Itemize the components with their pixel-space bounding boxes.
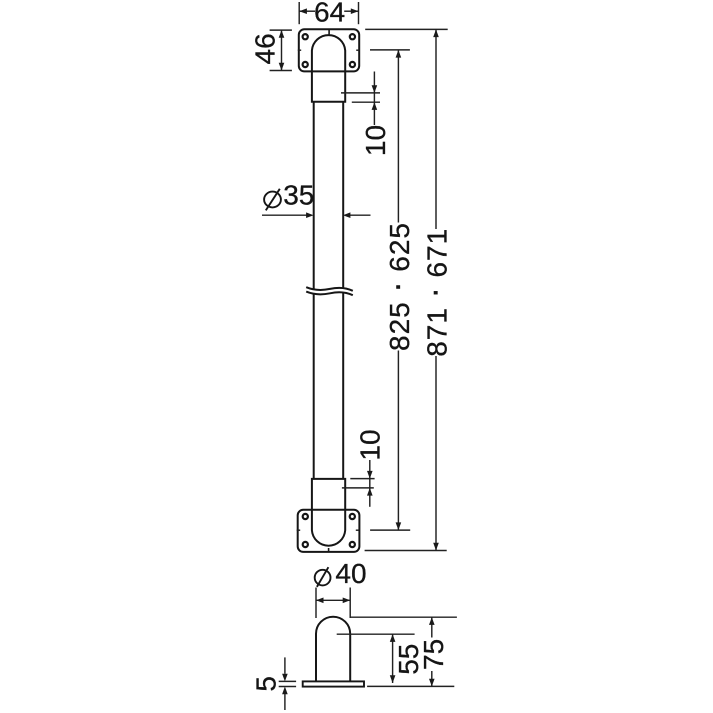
dimension 10 (bottom joint) <box>342 429 386 506</box>
dimension 46 (flange height) <box>249 30 292 70</box>
top flange plate <box>299 29 359 71</box>
svg-text:55: 55 <box>393 644 424 675</box>
top flange bolt hole BL <box>303 62 308 67</box>
top flange bolt hole TR <box>350 34 355 39</box>
svg-text:46: 46 <box>249 33 280 64</box>
side view dome cap <box>316 617 350 682</box>
dimension 825/625 (pole length) <box>370 50 415 530</box>
bottom flange mid tick left <box>297 529 301 531</box>
break wave upper <box>306 287 353 291</box>
svg-text:10: 10 <box>360 125 391 156</box>
bottom flange bolt hole BL <box>303 542 308 547</box>
dimension 55 (dome height) <box>337 634 425 683</box>
dimension 10 (top joint) <box>341 72 391 157</box>
dimension phi35 (pipe diameter) <box>262 180 371 218</box>
bottom center tick <box>328 548 330 552</box>
pipe break gap <box>306 289 353 293</box>
svg-text:5: 5 <box>250 676 281 692</box>
svg-text:825 · 625: 825 · 625 <box>377 222 415 351</box>
base bottom extension line <box>367 685 454 687</box>
bottom flange bolt hole TR <box>350 514 355 519</box>
dimension 871/671 (total length) <box>365 29 453 550</box>
top flange bolt hole TL <box>303 34 308 39</box>
svg-text:64: 64 <box>314 0 345 28</box>
dimension 5 (plate thickness) <box>250 657 296 710</box>
top center tick <box>328 29 330 34</box>
dimension 64 (top width) <box>299 0 358 28</box>
dimension 75 (base total height) <box>350 617 457 686</box>
bottom flange plate <box>298 510 360 552</box>
bottom flange mid tick right <box>356 529 359 531</box>
svg-text:10: 10 <box>355 429 386 460</box>
bottom flange bolt hole BR <box>350 542 355 547</box>
svg-text:35: 35 <box>283 180 314 211</box>
pipe body <box>314 102 344 479</box>
side view base plate <box>303 681 364 686</box>
top flange bolt hole BR <box>350 62 355 67</box>
top flange mid tick right <box>356 49 359 51</box>
svg-text:40: 40 <box>335 558 366 589</box>
top dome sleeve <box>312 35 345 102</box>
top flange mid tick left <box>298 49 301 51</box>
bottom flange bolt hole TL <box>303 514 308 519</box>
bottom sleeve with dome <box>312 479 345 546</box>
break wave lower <box>306 292 353 296</box>
dimension phi40 (base diameter) <box>315 558 367 618</box>
svg-text:871 · 671: 871 · 671 <box>415 228 453 357</box>
